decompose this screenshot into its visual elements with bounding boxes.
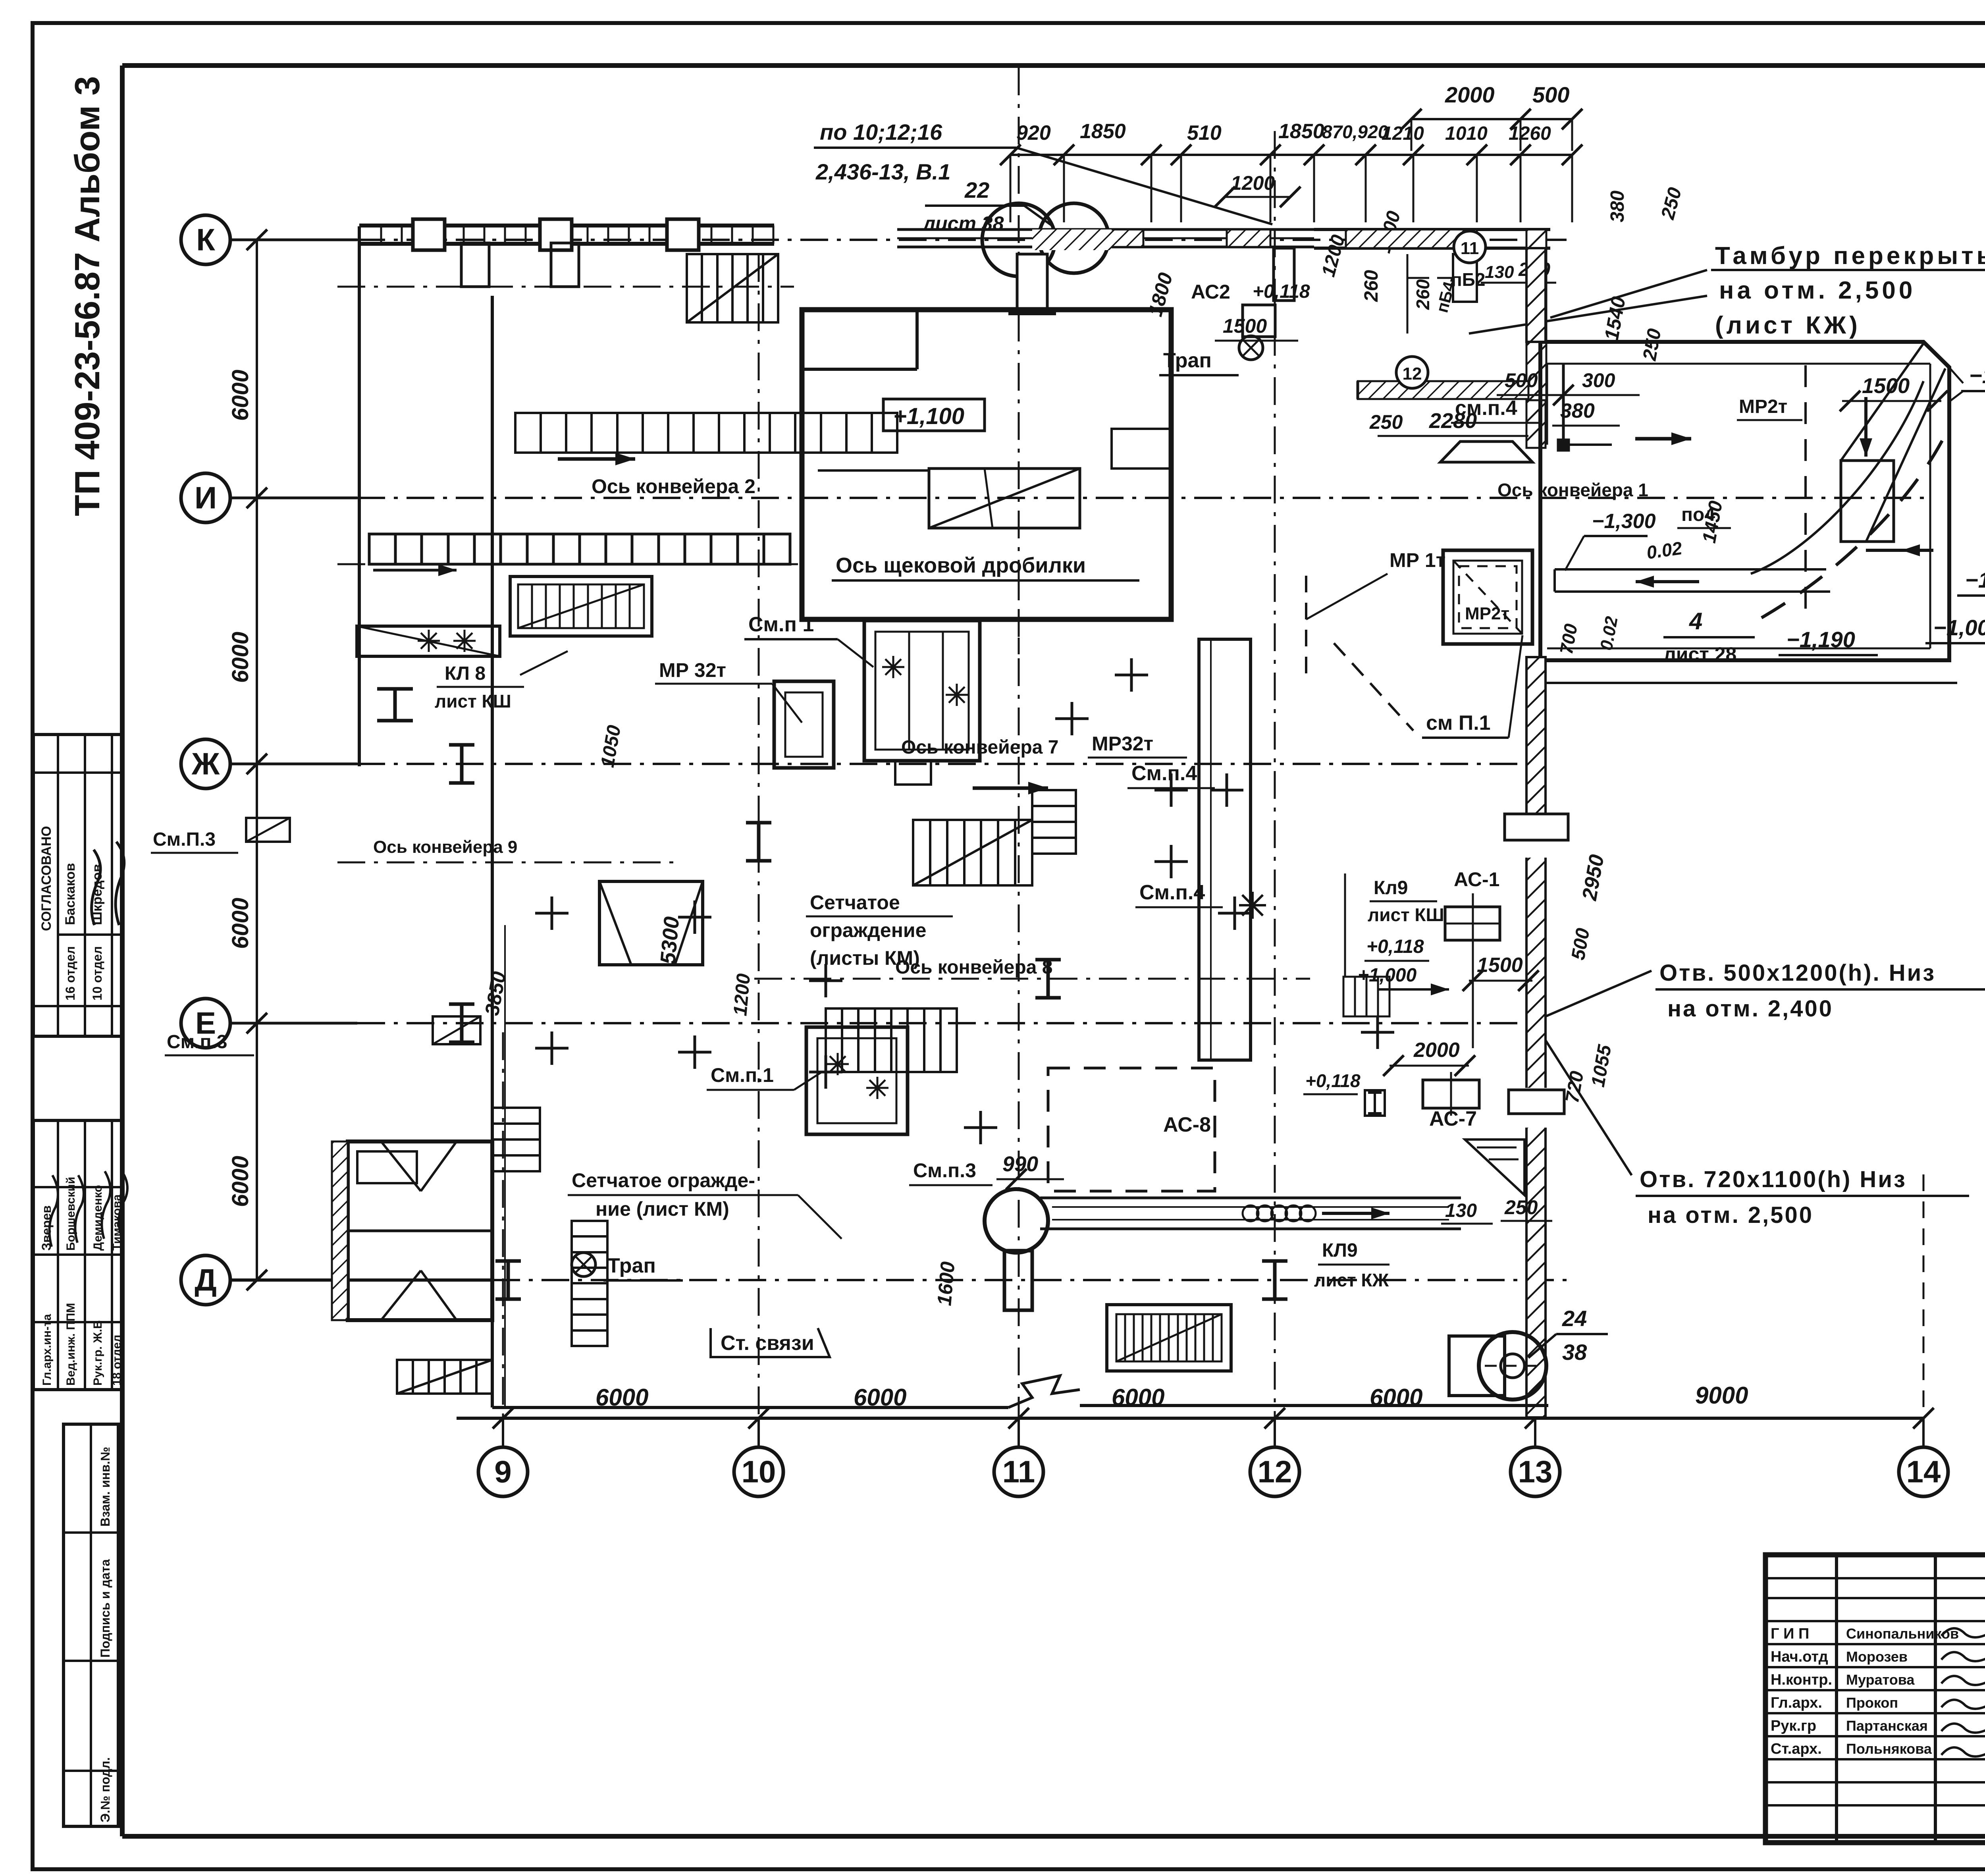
label См.п.4 lower	[1135, 881, 1223, 907]
svg-text:ТП 409-23-56.87 Альбом 3: ТП 409-23-56.87 Альбом 3	[67, 76, 107, 516]
stair in lower left	[492, 1108, 540, 1171]
label +0,118 mid	[1303, 1070, 1361, 1094]
tambour opening arrow	[1407, 254, 1429, 334]
svg-text:Ось щековой дробилки: Ось щековой дробилки	[836, 553, 1086, 577]
label См.П.3 upper left	[151, 829, 238, 853]
label по4	[1677, 504, 1731, 528]
svg-text:2000: 2000	[1413, 1039, 1460, 1062]
svg-text:МР2т: МР2т	[1465, 604, 1509, 623]
svg-text:Ст.арх.: Ст.арх.	[1771, 1741, 1822, 1757]
column Д 12	[1262, 1261, 1287, 1299]
svg-text:лист КШ: лист КШ	[435, 691, 511, 711]
big circle opening	[985, 1189, 1048, 1253]
arrow into room	[1635, 432, 1691, 445]
axis circle Е	[181, 999, 230, 1048]
svg-text:Морозев: Морозев	[1846, 1648, 1908, 1665]
svg-text:Н.контр.: Н.контр.	[1771, 1672, 1832, 1688]
wall opening 2	[1524, 1088, 1548, 1128]
svg-text:250: 250	[1369, 411, 1403, 433]
svg-text:МР 1т: МР 1т	[1389, 549, 1445, 571]
svg-text:См.п.4: См.п.4	[1139, 881, 1205, 904]
column Д mid	[1004, 1251, 1032, 1310]
axis circle 11	[994, 1447, 1043, 1496]
axis circle 13	[1511, 1447, 1560, 1496]
columns row Ж	[449, 745, 771, 861]
pilaster below junction	[1008, 254, 1056, 314]
svg-text:К: К	[196, 222, 215, 257]
arrow left small	[1866, 544, 1933, 556]
svg-text:+0,118: +0,118	[1366, 936, 1424, 957]
МР2т room	[1443, 550, 1532, 644]
svg-text:Взам. инв.№: Взам. инв.№	[98, 1447, 112, 1527]
svg-text:1500: 1500	[1862, 374, 1910, 398]
svg-text:16 отдел: 16 отдел	[63, 946, 77, 1001]
pipe sleeve through wall	[1505, 814, 1568, 840]
callout 4 / лист 28	[1663, 608, 1755, 665]
svg-text:24: 24	[1562, 1306, 1587, 1331]
stair upper right of КЛ8	[510, 576, 652, 636]
ladder band below К	[515, 413, 897, 453]
conveyor 7 arrow	[973, 782, 1048, 794]
label Трап upper	[1159, 336, 1263, 375]
dashed corner lines	[1306, 576, 1413, 731]
svg-text:Кл9: Кл9	[1374, 877, 1408, 898]
room lower left walls	[348, 1141, 492, 1320]
svg-text:Ж: Ж	[191, 746, 220, 781]
room См.п.1 lower	[806, 1027, 908, 1134]
svg-text:по 10;12;16: по 10;12;16	[820, 120, 942, 145]
svg-text:Нач.отд: Нач.отд	[1771, 1648, 1828, 1665]
svg-text:см.п.4: см.п.4	[1455, 397, 1517, 420]
label Тамбур перекрыть	[1711, 242, 1985, 339]
svg-text:Тимакова: Тимакова	[110, 1194, 123, 1251]
dim 1500 И region	[1215, 315, 1298, 341]
svg-text:260: 260	[1413, 279, 1433, 310]
dashed square АС-8	[1048, 1068, 1215, 1191]
tambour callout lines	[1469, 270, 1707, 334]
duct edge line	[1344, 873, 1346, 977]
svg-text:Баскаков: Баскаков	[63, 863, 78, 925]
svg-text:МР 32т: МР 32т	[659, 659, 726, 681]
label МР2т top	[1737, 396, 1802, 420]
callout 24/38	[1528, 1306, 1608, 1365]
machine room walls	[802, 310, 1171, 619]
label Ось конвейера 1	[1497, 480, 1648, 500]
circle grid 12 small	[1396, 357, 1428, 388]
dash line below К band	[337, 286, 794, 288]
svg-text:260: 260	[1361, 270, 1382, 302]
dim 130 250 bottom	[1441, 1196, 1552, 1224]
svg-text:300: 300	[1582, 369, 1615, 391]
svg-text:Рук.гр. Ж.Б: Рук.гр. Ж.Б	[91, 1320, 104, 1386]
axis circle И	[181, 473, 230, 523]
svg-text:1850: 1850	[1080, 120, 1126, 143]
right room doorway stub	[1558, 364, 1612, 450]
svg-text:СОГЛАСОВАНО: СОГЛАСОВАНО	[39, 826, 54, 931]
svg-text:+0,118: +0,118	[1305, 1070, 1361, 1091]
crosses scatter	[535, 658, 1394, 1144]
svg-text:(листы КМ): (листы КМ)	[810, 947, 920, 969]
svg-text:500: 500	[1505, 369, 1538, 391]
svg-text:9000: 9000	[1695, 1382, 1748, 1409]
svg-text:лист 28: лист 28	[1663, 643, 1736, 665]
right room bottom outer band	[1546, 682, 1957, 684]
axis line Д	[230, 1278, 1572, 1282]
label МР32т callout	[655, 659, 802, 723]
svg-text:ние (лист КМ): ние (лист КМ)	[595, 1198, 729, 1220]
column line 11	[1018, 67, 1020, 1418]
dim 130 250 tambour	[1481, 259, 1556, 283]
svg-text:Муратова: Муратова	[1846, 1672, 1915, 1688]
dim 380	[1552, 399, 1620, 426]
label +1,100 boxed	[883, 399, 985, 431]
signatures upper	[92, 842, 124, 925]
columns row Е	[449, 960, 1061, 1042]
svg-text:1500: 1500	[1223, 315, 1267, 337]
svg-text:1200: 1200	[1231, 172, 1275, 194]
top dimension chain	[1000, 145, 1582, 222]
column line 10	[758, 254, 760, 1418]
svg-text:Трап: Трап	[1163, 349, 1212, 372]
svg-text:АС-8: АС-8	[1163, 1113, 1211, 1136]
svg-text:Гл.арх.: Гл.арх.	[1771, 1695, 1822, 1711]
starsq mid	[1239, 892, 1266, 919]
svg-text:6000: 6000	[227, 370, 253, 421]
small box symbol 2	[433, 1016, 480, 1044]
stair under К wall	[687, 254, 778, 322]
axis circle 10	[734, 1447, 783, 1496]
label -1,000 mid	[1925, 615, 1985, 643]
axis circle Ж	[181, 739, 230, 789]
west wall lower inner	[504, 925, 506, 1407]
hatch left wall	[332, 1141, 348, 1320]
plan bottom wall	[492, 1406, 1008, 1409]
svg-text:−1,300: −1,300	[1592, 510, 1656, 533]
svg-text:5300: 5300	[656, 916, 684, 965]
stair mid 2	[1032, 790, 1076, 854]
svg-text:38: 38	[1562, 1340, 1587, 1365]
label Отв.500х1200	[1655, 960, 1985, 1022]
svg-text:См.п.1: См.п.1	[711, 1064, 774, 1086]
label -1,190 mid	[1779, 627, 1878, 655]
right room inner rect	[1841, 461, 1894, 542]
leader to Отв 500x1200	[1546, 971, 1652, 1016]
svg-text:Э.№ подл.: Э.№ подл.	[98, 1757, 112, 1822]
big vertical duct	[1199, 639, 1251, 1060]
main hatched wall axis 13 upper	[1526, 248, 1546, 342]
svg-text:Ось конвейера 7: Ось конвейера 7	[901, 737, 1058, 758]
crusher axis dash	[1018, 584, 1020, 667]
pilaster below К wall	[461, 243, 579, 287]
dim 1500 mid	[1463, 954, 1539, 991]
svg-text:9: 9	[494, 1454, 511, 1489]
svg-text:Прокоп: Прокоп	[1846, 1695, 1898, 1711]
svg-text:11: 11	[1461, 239, 1479, 258]
svg-text:500: 500	[1532, 82, 1569, 107]
junction circle second	[1039, 203, 1109, 273]
stair mid	[913, 820, 1032, 885]
label КЛ8 лист КШ	[435, 651, 568, 711]
svg-text:См.П.3: См.П.3	[153, 829, 216, 850]
svg-text:АС-1: АС-1	[1454, 868, 1499, 891]
svg-text:на отм. 2,500: на отм. 2,500	[1719, 277, 1916, 304]
svg-text:на отм. 2,400: на отм. 2,400	[1667, 996, 1833, 1022]
label -1,190 right	[1957, 567, 1985, 596]
svg-text:Польнякова: Польнякова	[1846, 1741, 1932, 1757]
svg-text:МР2т: МР2т	[1739, 396, 1787, 417]
column blocks on К wall	[413, 219, 699, 250]
svg-text:2000: 2000	[1445, 82, 1495, 107]
svg-text:Сетчатое огражде-: Сетчатое огражде-	[572, 1169, 755, 1192]
svg-text:18 отдел: 18 отдел	[110, 1335, 123, 1386]
bottom dimension line	[457, 1408, 1934, 1447]
column line 14	[1923, 1174, 1925, 1418]
svg-text:Ст. связи: Ст. связи	[721, 1332, 814, 1355]
svg-text:Партанская: Партанская	[1846, 1718, 1928, 1734]
svg-text:−1,000: −1,000	[1933, 615, 1985, 640]
title roles	[1771, 1625, 1959, 1757]
label См.п.4 top	[1451, 397, 1540, 423]
filing column labels	[98, 1447, 112, 1822]
svg-text:Ось конвейера 9: Ось конвейера 9	[373, 837, 517, 857]
staff stamp labels	[39, 1177, 123, 1386]
arrow И west	[558, 453, 635, 465]
label см П.1 lower	[1422, 635, 1522, 738]
circle grid 11 small	[1454, 231, 1486, 263]
svg-text:АС2: АС2	[1191, 281, 1230, 303]
column line 9 partial	[502, 1032, 504, 1418]
stair room bottom	[1107, 1305, 1231, 1371]
svg-text:И: И	[195, 480, 217, 515]
svg-text:870,920: 870,920	[1322, 121, 1388, 142]
svg-text:Ось конвейера 2: Ось конвейера 2	[592, 475, 755, 497]
svg-text:Рук.гр: Рук.гр	[1771, 1718, 1816, 1734]
svg-text:Д: Д	[195, 1263, 217, 1298]
svg-text:Трап: Трап	[607, 1254, 656, 1277]
hatch circles in band	[1243, 1205, 1316, 1221]
label Сетчатое ограждение листы КМ upper	[806, 891, 953, 969]
dim 720 1055 rotated	[1562, 1043, 1616, 1105]
signatures lower	[49, 1171, 127, 1247]
svg-text:см П.1: см П.1	[1426, 711, 1491, 735]
АС2 box	[1243, 305, 1275, 337]
dim 1500 right room	[1840, 374, 1948, 411]
label КЛ9 лист КЖ bottom	[1314, 1240, 1389, 1290]
МР2т travel dashed line	[1804, 365, 1807, 615]
svg-text:22: 22	[964, 177, 989, 202]
svg-text:Отв. 500х1200(h). Низ: Отв. 500х1200(h). Низ	[1659, 960, 1936, 986]
svg-text:920: 920	[1016, 121, 1051, 145]
axis circle 14	[1899, 1447, 1948, 1496]
label -1,300	[1565, 510, 1656, 571]
approval stamp labels	[39, 826, 105, 1001]
svg-text:Ось конвейера 1: Ось конвейера 1	[1497, 480, 1648, 500]
column box Е13	[1423, 1072, 1479, 1116]
conveyor 2 axis	[337, 563, 798, 565]
junction circle 22	[982, 203, 1055, 276]
dim 2280	[1378, 409, 1528, 436]
right room solid curve	[1751, 381, 1923, 574]
arrow down right room	[1860, 397, 1872, 457]
sleeve 2	[1509, 1090, 1564, 1114]
svg-text:Вед.инж. ППМ: Вед.инж. ППМ	[64, 1303, 77, 1386]
column ibeam box	[1365, 1090, 1385, 1116]
svg-text:380: 380	[1560, 399, 1595, 422]
stair band Ж west	[357, 626, 500, 656]
svg-text:Тамбур перекрыть: Тамбур перекрыть	[1715, 242, 1985, 270]
svg-text:1500: 1500	[1477, 954, 1523, 977]
svg-text:1010: 1010	[1445, 123, 1488, 144]
label Ст. связи	[711, 1328, 830, 1357]
svg-text:6000: 6000	[227, 898, 253, 949]
svg-text:6000: 6000	[227, 1156, 253, 1207]
svg-text:130: 130	[1485, 262, 1514, 282]
svg-text:(лист КЖ): (лист КЖ)	[1715, 312, 1861, 339]
label См.п.1 lower callout	[707, 1064, 822, 1090]
left dimension line 6000 chain	[247, 229, 267, 1290]
conveyor band bottom	[1040, 1198, 1461, 1229]
axis line Е	[230, 1022, 1540, 1025]
axis circle 12	[1250, 1447, 1299, 1496]
svg-text:11: 11	[1002, 1454, 1035, 1489]
axis circle Д	[181, 1255, 230, 1305]
dim 1200 И	[1214, 172, 1301, 207]
svg-text:510: 510	[1187, 121, 1222, 145]
АС-1 pipe box	[1445, 893, 1500, 1048]
svg-text:10: 10	[742, 1454, 776, 1489]
МР1т trapezoid	[1440, 442, 1532, 462]
hatched wall piece К 2	[1227, 229, 1270, 247]
axis circle 9	[478, 1447, 528, 1496]
main hatched wall axis 13 lower	[1526, 657, 1546, 1417]
label Трап lower	[572, 1253, 683, 1280]
svg-text:380: 380	[1607, 191, 1628, 222]
label См.п.4 mid	[1127, 762, 1215, 788]
svg-text:+0,118: +0,118	[1253, 281, 1310, 302]
column Д west	[495, 1261, 521, 1299]
svg-text:1850: 1850	[1278, 120, 1324, 143]
conveyor 2 band	[369, 534, 790, 564]
label МР32т mid	[1088, 733, 1187, 758]
stair vertical lower left	[572, 1221, 607, 1346]
approval stamp table	[33, 735, 123, 1036]
label Сетчатое огражде-ние лист КМ lower	[568, 1169, 842, 1239]
svg-text:Подпись и дата: Подпись и дата	[98, 1559, 112, 1658]
hatched wall piece К 1	[1100, 229, 1143, 247]
small box symbol 1	[246, 818, 290, 842]
room small notch	[895, 761, 931, 785]
svg-text:лист КШ: лист КШ	[1368, 904, 1444, 925]
tambour east wall hatched	[1526, 229, 1546, 400]
svg-text:250: 250	[1504, 1196, 1538, 1219]
svg-text:См.п 1: См.п 1	[748, 613, 814, 636]
svg-text:лист КЖ: лист КЖ	[1314, 1270, 1389, 1290]
arrow conveyor 1	[1636, 576, 1699, 588]
hopper room west	[599, 881, 703, 965]
dim chain 2000 500	[1401, 82, 1582, 151]
label Ось конвейера 9	[373, 837, 517, 857]
axis line И	[230, 497, 1929, 499]
stair ticks bottom	[1116, 1314, 1222, 1361]
svg-text:АС-7: АС-7	[1429, 1107, 1477, 1130]
title block left rows	[1765, 1578, 1985, 1805]
dim 500 300 doorway	[1497, 369, 1640, 405]
title block frame	[1765, 1555, 1985, 1843]
svg-text:990: 990	[1002, 1152, 1038, 1176]
wall stub below tambour	[1526, 400, 1546, 448]
svg-text:14: 14	[1906, 1454, 1941, 1489]
svg-text:13: 13	[1518, 1454, 1553, 1489]
axis circle К	[181, 215, 230, 264]
right room cross diagonals	[1841, 343, 1945, 542]
dim 2000 mid	[1383, 1039, 1475, 1076]
title signatures	[1941, 1626, 1985, 1756]
wall band on axis К mid	[897, 229, 1314, 247]
wall band on axis К west	[359, 226, 774, 244]
svg-text:130: 130	[1445, 1200, 1477, 1221]
dim 990	[996, 1152, 1064, 1190]
label См.п.3 bottom mid	[909, 1159, 992, 1185]
column line 12	[1274, 131, 1276, 1418]
svg-text:4: 4	[1689, 608, 1702, 634]
conveyor 8 axis	[754, 978, 1310, 980]
tambour south wall hatched	[1358, 381, 1528, 399]
svg-text:См.п.4: См.п.4	[1131, 762, 1197, 785]
svg-text:на отм. 2,500: на отм. 2,500	[1648, 1202, 1813, 1228]
right room walls	[1540, 342, 1949, 660]
break line bottom	[1008, 1376, 1080, 1407]
wall band К tambour part	[1314, 229, 1550, 248]
column И west 1	[377, 689, 413, 721]
conveyor 1 floor lines	[1555, 569, 1830, 592]
svg-text:См.п.3: См.п.3	[913, 1159, 976, 1182]
pump circle bottom	[1449, 1332, 1546, 1400]
label Кл9 лист КШ stack	[1358, 877, 1449, 995]
svg-text:Отв. 720х1100(h) Низ: Отв. 720х1100(h) Низ	[1640, 1166, 1907, 1192]
label См.п 1 upper callout	[744, 613, 873, 667]
svg-text:10 отдел: 10 отдел	[90, 946, 104, 1001]
crusher shelf	[818, 429, 1171, 470]
conveyor 9 axis	[337, 862, 675, 864]
label МР1т	[1306, 549, 1445, 619]
svg-text:2,436-13, В.1: 2,436-13, В.1	[815, 159, 950, 184]
crusher inner rect	[929, 469, 1080, 528]
west wall lower	[491, 296, 494, 1407]
axis line К	[230, 239, 1572, 241]
triangle stair АС-7	[1465, 1139, 1524, 1195]
west wall	[358, 226, 361, 766]
staff stamp table	[33, 1120, 123, 1390]
label Отв.720х1100	[1636, 1166, 1969, 1228]
right room inner dashed curve	[1761, 441, 1942, 618]
axis line Ж	[230, 763, 1540, 765]
stair corner lower left	[397, 1360, 492, 1394]
filing column table	[64, 1424, 118, 1826]
callout по 10;12;16 / 2,436-13, В.1	[814, 120, 1272, 224]
svg-text:−1,190: −1,190	[1786, 627, 1855, 652]
hatched wall tambour top	[1346, 229, 1477, 248]
svg-text:1600: 1600	[933, 1261, 959, 1307]
stair below conveyor 8	[826, 1008, 957, 1072]
label См.п.3 left2	[165, 1032, 254, 1055]
tambour inner door	[1437, 254, 1477, 302]
plan bottom wall right	[1080, 1404, 1548, 1407]
svg-text:1200: 1200	[730, 973, 754, 1017]
svg-text:ограждение: ограждение	[810, 919, 926, 941]
svg-text:Сетчатое: Сетчатое	[810, 891, 900, 914]
room См.п.1 upper	[864, 621, 980, 761]
stair small mid	[1343, 977, 1389, 1016]
